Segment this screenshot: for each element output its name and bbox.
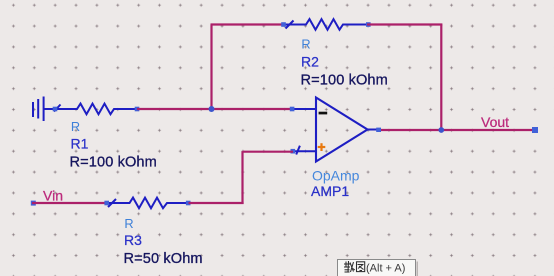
wire feedback vertical left bbox=[210, 25, 212, 110]
svg-text:R=50 kOhm: R=50 kOhm bbox=[124, 251, 203, 267]
resistor R1 bbox=[45, 104, 138, 115]
svg-text:R2: R2 bbox=[301, 54, 319, 70]
svg-text:R1: R1 bbox=[71, 136, 89, 152]
node square wire start Vin bbox=[31, 201, 36, 206]
svg-text:OpAmp: OpAmp bbox=[312, 167, 360, 183]
wire opamp output to Vout bbox=[381, 129, 535, 131]
junction node output feedback bbox=[438, 127, 444, 133]
resistor R2 bbox=[283, 19, 367, 30]
svg-text:R: R bbox=[124, 216, 133, 231]
svg-text:Vin: Vin bbox=[43, 188, 63, 204]
tooltip glyph jie (screenshot) bbox=[344, 261, 355, 272]
op-amp inverting input stub bbox=[293, 108, 317, 110]
node square R1 pin1 bbox=[53, 107, 58, 112]
wire R2 to feedback vertical right bbox=[367, 23, 442, 25]
node square opamp non-inverting pin bbox=[291, 149, 296, 154]
op-amp AMP1 triangle bbox=[316, 98, 368, 162]
node square R2 pin2 bbox=[366, 22, 371, 27]
wire Vin to R3 bbox=[32, 202, 107, 204]
resistor R3 bbox=[107, 198, 189, 209]
node square opamp output pin bbox=[376, 128, 381, 132]
ground symbol bbox=[33, 97, 44, 122]
node square R2 pin1 bbox=[281, 22, 286, 27]
svg-text:AMP1: AMP1 bbox=[311, 183, 349, 199]
wire R1 to opamp inverting input bbox=[137, 108, 293, 110]
pin marker slash R3 bbox=[108, 199, 116, 207]
op-amp plus sign bbox=[318, 143, 326, 151]
wire to opamp plus input bbox=[243, 151, 294, 153]
op-amp minus sign bbox=[319, 112, 328, 115]
wire vertical up to plus input bbox=[241, 151, 243, 204]
pin marker slash opamp plus pin bbox=[296, 146, 300, 155]
junction node A bbox=[209, 106, 215, 112]
node square R3 pin2 bbox=[186, 201, 191, 206]
tooltip box screenshot hint bbox=[338, 260, 419, 276]
op-amp output stub bbox=[368, 129, 379, 131]
pin marker slash R1 bbox=[54, 105, 61, 112]
wire top left to R2 bbox=[211, 23, 284, 25]
svg-text:R: R bbox=[301, 37, 310, 52]
tooltip glyph tu (picture) bbox=[357, 262, 365, 272]
svg-text:R=100 kOhm: R=100 kOhm bbox=[301, 73, 388, 89]
svg-text:(Alt + A): (Alt + A) bbox=[366, 263, 405, 275]
node square R3 pin1 bbox=[104, 201, 109, 206]
node square opamp inverting pin bbox=[290, 107, 295, 112]
node square R1 pin2 bbox=[135, 107, 140, 112]
wire feedback vertical right bbox=[440, 25, 442, 131]
pin marker slash R2 bbox=[286, 21, 294, 29]
svg-text:Vout: Vout bbox=[481, 114, 509, 130]
op-amp non-inverting input stub bbox=[293, 150, 316, 152]
svg-text:R: R bbox=[71, 119, 80, 134]
node square wire end Vout bbox=[532, 127, 538, 133]
svg-text:R=100 kOhm: R=100 kOhm bbox=[70, 155, 157, 171]
svg-text:R3: R3 bbox=[124, 232, 142, 248]
wire R3 to corner bbox=[189, 202, 244, 204]
